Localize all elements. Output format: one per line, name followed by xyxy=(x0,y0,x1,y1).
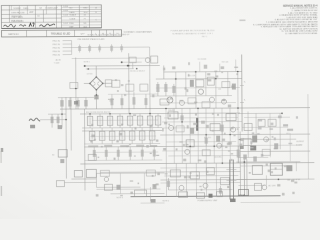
title block row line xyxy=(1,13,101,16)
label smudge xyxy=(206,125,209,128)
title block fine row xyxy=(61,24,101,26)
wire xyxy=(175,163,177,196)
resistor R33 xyxy=(107,114,113,128)
transistor Q32 xyxy=(203,183,208,188)
label smudge xyxy=(198,159,202,161)
label smudge xyxy=(261,154,264,157)
wire xyxy=(238,138,296,140)
wire rail xyxy=(160,182,240,184)
label smudge xyxy=(179,100,183,102)
wire xyxy=(227,72,229,96)
label smudge xyxy=(185,87,187,89)
wire xyxy=(128,53,130,113)
wire xyxy=(229,108,231,163)
capacitor C11 blob xyxy=(190,80,194,87)
junction node xyxy=(244,161,246,163)
resistor R51 xyxy=(168,112,178,119)
svg-text:QTY: QTY xyxy=(80,33,85,35)
capacitor C2 xyxy=(68,98,71,110)
capacitor C23 blob xyxy=(60,159,64,163)
svg-text:AC 120V: AC 120V xyxy=(268,184,276,187)
diode D2 xyxy=(51,114,54,128)
resistor R45 xyxy=(141,147,144,161)
junction node xyxy=(281,112,283,114)
svg-text:R2: R2 xyxy=(37,16,39,18)
wire xyxy=(235,60,237,72)
svg-text:PIN 4 IN: PIN 4 IN xyxy=(53,51,61,53)
wire xyxy=(163,65,165,78)
label smudge xyxy=(258,119,262,121)
label smudge xyxy=(157,172,160,175)
resistor R8 xyxy=(144,94,147,109)
wire rail xyxy=(162,127,240,129)
label smudge xyxy=(288,143,292,144)
label smudge xyxy=(98,157,100,158)
label smudge xyxy=(274,148,277,150)
wire xyxy=(219,64,221,72)
svg-text:D-106: D-106 xyxy=(63,15,68,17)
wire tick xyxy=(240,101,244,103)
resistor R61 xyxy=(244,123,252,130)
label smudge xyxy=(190,173,192,174)
wire xyxy=(213,108,215,163)
svg-text:FILE: FILE xyxy=(69,23,74,25)
wire rail xyxy=(100,171,240,174)
resistor R87 xyxy=(216,192,222,197)
label smudge xyxy=(252,132,255,134)
junction node xyxy=(128,65,130,67)
svg-text:D5 1S1588: D5 1S1588 xyxy=(198,59,207,61)
wire xyxy=(95,90,97,109)
wire xyxy=(71,41,73,55)
wire rail xyxy=(92,119,158,121)
label smudge xyxy=(214,71,217,73)
wire xyxy=(150,95,232,98)
parts band divider xyxy=(106,30,108,36)
svg-text:D-105: D-105 xyxy=(63,10,68,12)
parts band divider xyxy=(46,30,48,36)
wire rail xyxy=(160,133,310,136)
transistor Q41 xyxy=(262,185,267,190)
label smudge xyxy=(91,124,93,127)
resistor R102 xyxy=(88,44,91,52)
label smudge xyxy=(176,148,178,150)
junction node xyxy=(127,65,129,67)
svg-text:2SC945 x4 SELECT: 2SC945 x4 SELECT xyxy=(130,71,145,73)
wire xyxy=(96,186,140,188)
wire tick xyxy=(240,84,244,86)
label smudge xyxy=(207,73,210,75)
wire xyxy=(95,173,97,187)
junction node xyxy=(75,88,77,90)
title block outer frame xyxy=(1,5,101,29)
label smudge xyxy=(193,123,197,125)
resistor R54 xyxy=(226,114,236,121)
svg-text:NOTE 5: NOTE 5 xyxy=(163,200,170,202)
label smudge xyxy=(130,180,133,181)
label smudge xyxy=(237,128,239,129)
capacitor C53 blob xyxy=(190,128,194,134)
svg-text:R19 10K: R19 10K xyxy=(222,62,229,64)
label smudge xyxy=(222,100,225,102)
svg-text:PIN 5 IN: PIN 5 IN xyxy=(53,55,61,57)
svg-text:NOTE 3: NOTE 3 xyxy=(117,197,124,199)
wire xyxy=(205,108,207,163)
resistor R37 xyxy=(147,114,153,128)
wire xyxy=(238,156,268,158)
svg-text:DRIVER: DRIVER xyxy=(168,110,176,112)
wire rail xyxy=(244,144,300,146)
fuse box F3 xyxy=(88,154,96,160)
resistor R44 xyxy=(129,147,132,161)
wire xyxy=(205,163,207,196)
svg-text:TROUBLE IS LED: TROUBLE IS LED xyxy=(51,33,71,36)
wire rail xyxy=(80,112,240,115)
title block signature scrawl xyxy=(29,23,34,27)
wire xyxy=(70,97,72,150)
capacitor C34 xyxy=(119,128,125,144)
wire xyxy=(103,82,112,84)
svg-text:D-104: D-104 xyxy=(63,6,68,8)
label smudge xyxy=(234,67,238,68)
svg-text:POWER AMPLIFIER SECTION MODEL: POWER AMPLIFIER SECTION MODEL PA-1200 xyxy=(171,29,216,32)
junction node xyxy=(149,113,150,114)
label smudge xyxy=(114,158,116,160)
label smudge xyxy=(292,192,294,194)
resistor R56 xyxy=(237,146,240,163)
svg-text:SCALE: SCALE xyxy=(69,14,76,17)
label smudge xyxy=(156,183,159,185)
label smudge xyxy=(119,133,122,136)
label smudge xyxy=(269,128,273,130)
label smudge xyxy=(266,164,268,166)
label smudge xyxy=(233,134,235,136)
label smudge xyxy=(249,172,251,174)
svg-text:F2: F2 xyxy=(52,155,54,157)
handwritten note scrawl xyxy=(29,118,40,121)
label smudge xyxy=(163,68,165,71)
label smudge xyxy=(138,183,140,185)
wire xyxy=(122,61,142,63)
label smudge xyxy=(268,170,270,173)
title block column line xyxy=(60,5,62,28)
label smudge xyxy=(212,113,214,115)
diode D6 xyxy=(243,138,251,145)
title block signature scrawl xyxy=(19,25,26,27)
label smudge xyxy=(126,146,128,147)
svg-text:POWER SUPPLY UNIT: POWER SUPPLY UNIT xyxy=(198,200,219,202)
wire rail xyxy=(236,161,300,163)
resistor R55 xyxy=(220,122,223,135)
wire rail xyxy=(111,192,165,194)
junction node xyxy=(96,76,98,78)
resistor R103 xyxy=(110,44,113,52)
resistor R34 xyxy=(117,114,123,128)
title block fine row xyxy=(61,6,101,8)
svg-text:VR2: VR2 xyxy=(286,133,289,135)
junction node xyxy=(215,78,217,80)
label smudge xyxy=(188,62,190,65)
IC U1 bar xyxy=(196,118,198,131)
junction node xyxy=(61,113,63,115)
wire xyxy=(165,163,167,196)
resistor R38 xyxy=(155,113,161,127)
wire xyxy=(48,113,66,115)
wire rail xyxy=(162,120,242,122)
junction node xyxy=(237,71,239,73)
scan mark xyxy=(1,186,2,196)
wire xyxy=(72,57,150,59)
junction node xyxy=(121,61,123,63)
label smudge xyxy=(130,192,133,195)
wire xyxy=(63,40,72,42)
resistor R18 xyxy=(202,102,210,108)
resistor R13 xyxy=(156,82,159,96)
label smudge xyxy=(294,182,297,184)
svg-text:PIN 1 IN: PIN 1 IN xyxy=(53,41,61,43)
label smudge xyxy=(146,145,149,148)
label smudge xyxy=(172,66,175,69)
transistor Q11 xyxy=(169,125,174,130)
capacitor C62 blob xyxy=(274,143,278,149)
dark blob xyxy=(250,145,256,150)
label smudge xyxy=(296,116,298,118)
resistor R6 xyxy=(140,84,148,91)
resistor R71 xyxy=(86,169,96,177)
label smudge xyxy=(124,94,126,96)
wire xyxy=(185,163,187,196)
capacitor C61 blob xyxy=(252,135,257,142)
label smudge xyxy=(228,105,231,108)
label smudge xyxy=(222,99,226,101)
capacitor C51 xyxy=(180,113,183,122)
resistor R81 xyxy=(170,170,180,177)
svg-text:CODE: CODE xyxy=(69,18,75,20)
resistor R72 xyxy=(104,184,112,190)
resistor R92 xyxy=(254,183,261,190)
label smudge xyxy=(231,159,233,161)
transistor Q13 xyxy=(217,143,222,148)
label smudge xyxy=(91,135,94,138)
label smudge xyxy=(136,145,144,147)
label smudge xyxy=(278,115,282,118)
wire xyxy=(63,54,72,56)
junction node xyxy=(102,83,104,85)
parts band divider xyxy=(26,30,28,36)
wire rail xyxy=(160,102,236,104)
svg-text:PIN 3 IN: PIN 3 IN xyxy=(53,48,61,50)
label smudge xyxy=(228,142,232,145)
transistor Q2 xyxy=(167,97,173,103)
svg-text:T 120V: T 120V xyxy=(54,63,61,65)
junction node xyxy=(229,134,231,136)
label smudge xyxy=(133,114,136,115)
IC U3 xyxy=(270,163,282,175)
capacitor C22 blob xyxy=(58,125,63,129)
label smudge xyxy=(150,145,157,147)
label smudge xyxy=(239,143,242,146)
resistor R17 xyxy=(188,98,196,104)
label smudge xyxy=(129,144,131,145)
svg-text:C14: C14 xyxy=(218,89,221,91)
wire rail xyxy=(96,188,160,190)
svg-text:D1 S10: D1 S10 xyxy=(87,73,93,75)
label smudge xyxy=(121,84,124,86)
label smudge xyxy=(153,185,155,187)
label smudge xyxy=(169,114,171,117)
svg-text:SCHEMATIC DIAGRAM NO 4 SHEET: SCHEMATIC DIAGRAM NO 4 SHEET 1 OF 1 xyxy=(172,32,214,35)
title block column line xyxy=(8,5,10,22)
wire rail xyxy=(238,184,264,186)
switch box S1 xyxy=(56,181,64,187)
title block column line xyxy=(78,5,80,28)
capacitor C74 blob xyxy=(152,184,156,189)
label smudge xyxy=(134,155,136,156)
label smudge xyxy=(239,19,245,21)
resistor R2 xyxy=(84,97,87,109)
wire rail xyxy=(168,189,232,191)
label smudge xyxy=(230,127,233,129)
label smudge xyxy=(250,147,253,148)
resistor R73 xyxy=(134,190,146,197)
resistor R46 xyxy=(153,147,156,161)
wire rail xyxy=(96,172,164,174)
capacitor C81 blob xyxy=(286,165,292,171)
label smudge xyxy=(183,144,185,146)
resistor R4 xyxy=(112,80,120,87)
capacitor C13 blob xyxy=(232,84,236,90)
label smudge xyxy=(275,167,277,169)
junction node xyxy=(222,162,224,164)
wire xyxy=(63,43,72,45)
resistor R91 xyxy=(252,165,262,174)
capacitor C6 xyxy=(120,94,123,109)
resistor R57 xyxy=(176,126,184,132)
title block bottom edge xyxy=(1,27,101,30)
svg-text:MODEL PA-1200 SERIES SER NO 10: MODEL PA-1200 SERIES SER NO 1001 AND UP xyxy=(88,33,131,36)
resistor R82 xyxy=(190,172,199,179)
connector box J1 xyxy=(74,170,82,177)
transistor Q3 xyxy=(179,100,184,105)
label smudge xyxy=(199,186,201,187)
junction node xyxy=(87,68,89,70)
capacitor C31 xyxy=(89,128,95,144)
wire xyxy=(255,113,257,139)
capacitor C4 blob xyxy=(94,95,98,100)
fuse F2 xyxy=(58,150,67,158)
svg-text:DWG PA-1200: DWG PA-1200 xyxy=(11,11,25,14)
parts band divider xyxy=(91,30,93,36)
label smudge xyxy=(271,123,274,126)
label smudge xyxy=(116,140,118,143)
label smudge xyxy=(225,146,227,148)
shield line xyxy=(232,160,234,200)
wire rail xyxy=(82,126,162,128)
junction node xyxy=(89,113,90,114)
label smudge xyxy=(88,145,98,147)
label smudge xyxy=(287,129,293,131)
capacitor C3 xyxy=(105,80,112,87)
label smudge xyxy=(186,89,188,92)
label smudge xyxy=(201,189,203,191)
wire rail xyxy=(236,178,290,180)
diode D101 xyxy=(151,56,158,63)
wire xyxy=(149,47,151,79)
wire xyxy=(221,108,223,163)
title block column line xyxy=(55,5,57,28)
title block column line xyxy=(34,5,36,28)
wire rail xyxy=(108,93,158,95)
label smudge xyxy=(150,153,152,154)
junction node xyxy=(96,94,98,96)
label smudge xyxy=(258,127,262,129)
label smudge xyxy=(283,124,288,126)
svg-text:Q13 2SC: Q13 2SC xyxy=(214,157,222,159)
resistor R62 xyxy=(258,119,265,126)
svg-text:D-107: D-107 xyxy=(63,23,68,25)
wire xyxy=(175,72,177,108)
wire xyxy=(71,178,96,180)
label smudge xyxy=(231,86,234,88)
capacitor C12 xyxy=(172,84,175,96)
label smudge xyxy=(121,124,123,125)
wire xyxy=(185,72,187,96)
junction node xyxy=(189,146,191,148)
dark blob xyxy=(240,145,244,149)
junction node xyxy=(213,145,215,147)
wire xyxy=(246,159,248,195)
label smudge xyxy=(224,133,226,135)
wire main rail xyxy=(60,108,310,110)
resistor R35 xyxy=(127,114,133,128)
svg-text:PRE DRIVER STAGE B CLASS: PRE DRIVER STAGE B CLASS xyxy=(78,38,106,41)
label smudge xyxy=(227,186,231,188)
fuse F1 xyxy=(238,189,248,195)
resistor R43 xyxy=(117,147,120,161)
title block column line xyxy=(42,10,44,22)
label smudge xyxy=(168,124,170,126)
junction node xyxy=(197,108,199,110)
capacitor C63 blob xyxy=(243,154,247,159)
resistor R86 xyxy=(197,193,205,199)
label smudge xyxy=(104,145,112,147)
dark blob xyxy=(74,101,78,105)
label smudge xyxy=(90,140,92,142)
capacitor C5 xyxy=(110,94,113,109)
label smudge xyxy=(117,90,119,92)
transistor Q12 xyxy=(185,149,190,154)
svg-text:PCB 1200-01: PCB 1200-01 xyxy=(11,20,22,22)
transistor Q31 xyxy=(179,185,184,190)
junction node xyxy=(165,108,167,110)
wire xyxy=(63,47,72,49)
wire xyxy=(307,94,310,179)
wire xyxy=(238,112,282,114)
label smudge xyxy=(271,171,273,173)
title block signature scrawl xyxy=(3,24,15,27)
wire rail xyxy=(84,159,162,161)
ground xyxy=(108,99,114,102)
resistor R11 xyxy=(196,80,204,87)
wire xyxy=(165,108,167,163)
junction node xyxy=(65,119,67,121)
label smudge xyxy=(204,160,206,162)
svg-text:AC IN: AC IN xyxy=(56,59,62,62)
svg-text:NO: NO xyxy=(69,8,72,10)
resistor R52 xyxy=(186,140,194,147)
label smudge xyxy=(291,180,294,182)
label smudge xyxy=(228,150,230,151)
